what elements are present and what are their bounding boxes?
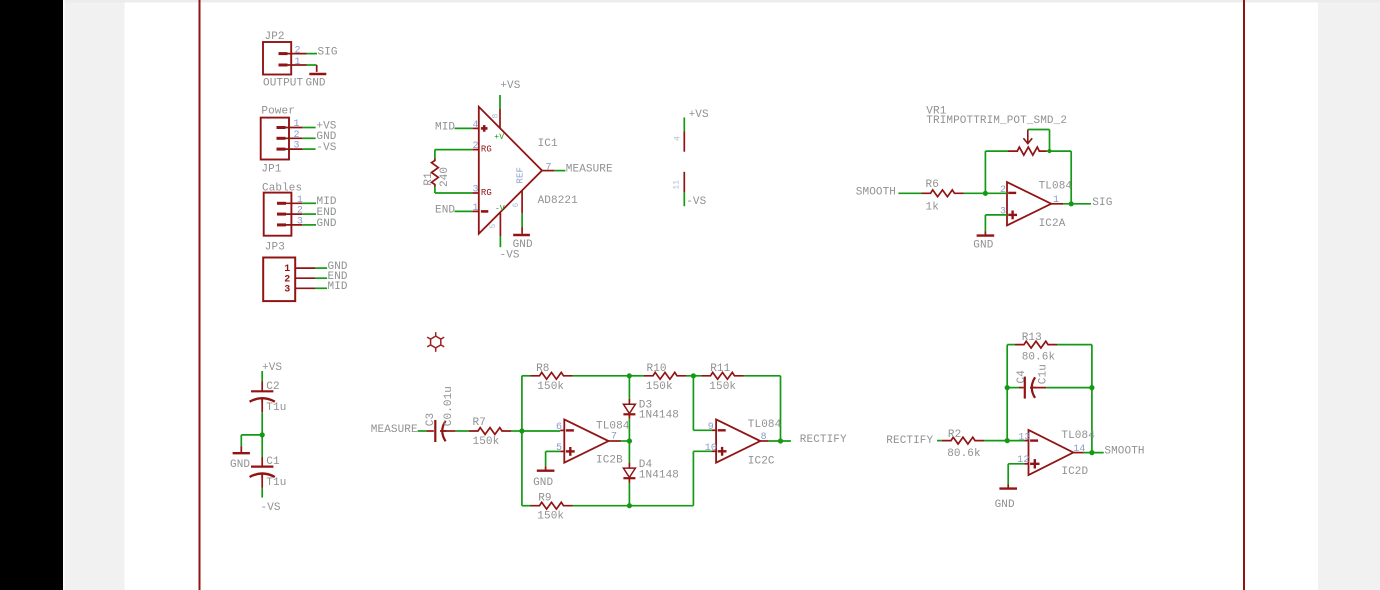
- IC1 pin 7 output: [542, 170, 554, 172]
- svg-text:2: 2: [1000, 185, 1006, 196]
- svg-text:GND: GND: [973, 240, 993, 252]
- op-amp IC1 AD8221 body: [479, 107, 542, 234]
- junction C4 left: [1005, 385, 1010, 390]
- svg-text:+VS: +VS: [689, 109, 709, 121]
- wire +VS: [303, 127, 316, 129]
- op-amp IC2A body: [1007, 182, 1051, 225]
- JP2 pin 2: [288, 53, 307, 55]
- svg-text:240: 240: [439, 167, 451, 187]
- diode D3: [628, 376, 630, 399]
- wire bottom row R9 left: [522, 505, 531, 507]
- svg-text:10: 10: [705, 443, 717, 454]
- svg-text:C1u: C1u: [1038, 364, 1050, 384]
- svg-text:-VS: -VS: [686, 196, 706, 208]
- IC1 pin 5 -VS: [499, 213, 501, 236]
- wire END: [302, 213, 316, 215]
- svg-text:TL084: TL084: [1061, 430, 1095, 442]
- wire GND: [303, 137, 316, 139]
- svg-text:Power: Power: [261, 106, 295, 118]
- IC1 pin 6 REF: [521, 191, 523, 213]
- junction IC2A output: [1069, 201, 1074, 206]
- svg-text:GND: GND: [533, 477, 553, 489]
- svg-text:3: 3: [284, 284, 290, 295]
- wire +VS: [683, 118, 685, 132]
- junction IC2B output D3 D4: [627, 438, 632, 443]
- IC2D pin 12 +IN: [1008, 463, 1024, 465]
- wire D4 to bottom row: [628, 483, 630, 506]
- wire MEASURE: [554, 170, 565, 172]
- svg-text:1: 1: [294, 119, 300, 130]
- wire R7 to node: [511, 430, 522, 432]
- svg-text:2: 2: [295, 46, 301, 57]
- wire output to SMOOTH: [1083, 452, 1103, 454]
- IC2D pin 13 -IN: [1007, 440, 1024, 442]
- capacitor C1: [261, 457, 263, 466]
- svg-text:150k: 150k: [537, 381, 564, 393]
- svg-text:GND: GND: [230, 459, 250, 471]
- wire SMOOTH to R6: [898, 192, 921, 194]
- junction C4 right: [1089, 385, 1094, 390]
- wire junction to C1: [261, 435, 263, 458]
- op-amp IC2B body: [564, 419, 608, 462]
- svg-text:-VS: -VS: [261, 502, 281, 514]
- svg-text:R11: R11: [710, 363, 730, 375]
- resistor R1: [432, 159, 439, 187]
- svg-text:2: 2: [294, 130, 300, 141]
- ground at C1-C2: [240, 446, 242, 452]
- wire pin6 to ground: [521, 213, 523, 227]
- wire -VS: [303, 148, 316, 150]
- left gray band: [65, 0, 125, 590]
- junction IC2C output feedback: [778, 438, 783, 443]
- svg-text:-VS: -VS: [316, 142, 336, 154]
- svg-text:C3: C3: [425, 413, 437, 426]
- svg-text:TRIMPOTTRIM_POT_SMD_2: TRIMPOTTRIM_POT_SMD_2: [926, 115, 1067, 127]
- svg-text:Cables: Cables: [262, 183, 302, 195]
- wire pin12 to ground: [1007, 464, 1009, 484]
- junction IC2D output feedback: [1089, 450, 1094, 455]
- wire -VS: [683, 192, 685, 206]
- sheet frame right border: [1243, 0, 1245, 590]
- wire C2 to junction: [261, 412, 263, 435]
- wire IC2A feedback left vertical: [984, 151, 986, 193]
- svg-text:7: 7: [611, 432, 617, 443]
- wire R13 left corner: [1007, 344, 1015, 346]
- IC2C pin 9 -IN: [693, 429, 712, 431]
- top gray strip: [65, 0, 1380, 3]
- junction D4-bottom row: [627, 503, 632, 508]
- svg-text:5: 5: [556, 443, 562, 454]
- diode D4: [628, 441, 630, 463]
- svg-text:4: 4: [473, 120, 479, 131]
- right gray band: [1318, 0, 1380, 590]
- IC2C pin 10 +IN: [693, 450, 712, 452]
- svg-text:R10: R10: [647, 363, 667, 375]
- svg-text:7: 7: [546, 163, 552, 174]
- svg-text:SIG: SIG: [318, 47, 338, 59]
- wire MEASURE to C3: [418, 430, 427, 432]
- svg-text:C0.01u: C0.01u: [443, 386, 455, 426]
- wire feedback top right: [1047, 150, 1071, 152]
- svg-text:80.6k: 80.6k: [947, 448, 981, 460]
- svg-text:150k: 150k: [473, 436, 500, 448]
- svg-text:IC2C: IC2C: [748, 456, 775, 468]
- junction R6-feedback-pin2: [983, 191, 988, 196]
- junction R7-R8-R9-pin6: [519, 428, 524, 433]
- svg-text:GND: GND: [995, 499, 1015, 511]
- svg-text:IC2A: IC2A: [1039, 218, 1066, 230]
- junction R8-R10-D3: [627, 373, 632, 378]
- resistor R9: [531, 502, 573, 509]
- IC2B pin 7 output: [608, 440, 621, 442]
- wire R8 left: [522, 375, 531, 377]
- svg-text:9: 9: [708, 422, 714, 433]
- JP3 pin 2: [286, 213, 302, 215]
- wire output node: [621, 440, 629, 442]
- IC2A pin 3 +IN: [985, 214, 1007, 216]
- svg-text:5: 5: [489, 224, 498, 229]
- resistor R8: [531, 372, 573, 379]
- wire pin9 vertical: [692, 376, 694, 431]
- svg-text:3: 3: [294, 141, 300, 152]
- JP3 pin 1: [286, 202, 302, 204]
- svg-text:+VS: +VS: [262, 362, 282, 374]
- svg-text:SMOOTH: SMOOTH: [856, 186, 896, 198]
- svg-text:11: 11: [673, 180, 682, 190]
- svg-text:MID: MID: [435, 121, 455, 133]
- IC2A pin 1 output: [1051, 203, 1063, 205]
- wire -VS: [499, 236, 501, 247]
- ground at IC2D: [1007, 484, 1009, 489]
- connector JP4: [263, 258, 295, 302]
- svg-text:3: 3: [473, 185, 479, 196]
- wire GND: [315, 267, 327, 269]
- wire R11 left: [693, 375, 701, 377]
- svg-text:IC1: IC1: [538, 138, 558, 150]
- svg-text:+V: +V: [494, 133, 504, 142]
- wire feedback right vertical: [1070, 151, 1072, 204]
- svg-text:MEASURE: MEASURE: [371, 424, 418, 436]
- capacitor C2: [261, 382, 263, 391]
- wire RECTIFY to R2: [937, 440, 942, 442]
- connector JP2: [263, 42, 291, 75]
- wire R2 to node: [984, 440, 1007, 442]
- svg-text:R1: R1: [423, 172, 435, 186]
- svg-text:RECTIFY: RECTIFY: [886, 435, 933, 447]
- trimpot VR1 element: [1008, 147, 1047, 155]
- svg-text:IC2D: IC2D: [1061, 466, 1088, 478]
- svg-text:GND: GND: [317, 218, 337, 230]
- svg-text:END: END: [435, 204, 455, 216]
- svg-text:GND: GND: [513, 239, 533, 251]
- svg-text:3: 3: [297, 216, 303, 227]
- wire C4 right: [1046, 387, 1092, 389]
- svg-text:2: 2: [297, 206, 303, 217]
- svg-text:R9: R9: [538, 493, 551, 505]
- wire END: [315, 277, 327, 279]
- svg-text:1: 1: [297, 195, 303, 206]
- resistor R13: [1015, 341, 1057, 348]
- svg-text:R2: R2: [948, 429, 961, 441]
- svg-text:13: 13: [1018, 432, 1030, 443]
- wire bottom to pin10 vertical: [692, 451, 694, 505]
- svg-text:JP3: JP3: [265, 241, 285, 253]
- svg-text:150k: 150k: [646, 381, 673, 393]
- JP2 pin 1: [288, 64, 307, 66]
- IC2D pin 14 output: [1073, 452, 1084, 454]
- svg-text:C2: C2: [266, 381, 279, 393]
- svg-text:RG: RG: [481, 145, 492, 155]
- wire END: [455, 210, 473, 212]
- trimpot wiper arrow: [1027, 130, 1029, 144]
- wire pin5 to ground: [545, 451, 547, 466]
- svg-text:8: 8: [492, 114, 501, 119]
- svg-text:+VS: +VS: [500, 80, 520, 92]
- svg-text:-VS: -VS: [500, 250, 520, 262]
- svg-text:T1u: T1u: [266, 477, 286, 489]
- IC1 pin 4 +IN: [472, 127, 479, 129]
- wire left vertical R8-R9: [521, 376, 523, 506]
- wire MID: [315, 287, 327, 289]
- wire R6 to node: [964, 192, 986, 194]
- svg-text:-V: -V: [495, 205, 505, 214]
- svg-text:8: 8: [761, 432, 767, 443]
- JP3 pin 3: [286, 224, 302, 226]
- svg-text:1N4148: 1N4148: [639, 409, 679, 421]
- IC1 pin 8 +VS: [499, 109, 501, 129]
- wire GND: [302, 224, 316, 226]
- svg-text:3: 3: [1000, 207, 1006, 218]
- wire bottom row R9 right: [572, 505, 693, 507]
- wire R11 to corner: [744, 375, 781, 377]
- wire output to RECTIFY: [769, 440, 791, 442]
- JP4 pin 2: [295, 277, 315, 279]
- wire MID: [302, 202, 316, 204]
- wire SIG: [307, 53, 318, 55]
- svg-text:1: 1: [473, 203, 479, 214]
- resistor R6: [922, 190, 964, 197]
- wire wiper: [1028, 129, 1050, 131]
- svg-text:2: 2: [473, 141, 479, 152]
- wire C3 to R7: [456, 430, 469, 432]
- svg-text:MID: MID: [328, 281, 348, 293]
- svg-text:MEASURE: MEASURE: [566, 164, 613, 176]
- JP1 pin 1: [286, 127, 303, 129]
- junction C1-C2-GND: [260, 432, 265, 437]
- svg-text:JP2: JP2: [265, 31, 285, 43]
- IC1 pin 3 RG: [472, 192, 479, 194]
- svg-text:R6: R6: [926, 179, 939, 191]
- svg-text:C1: C1: [266, 456, 280, 468]
- wire R1 to pin3: [434, 187, 436, 194]
- svg-text:RG: RG: [481, 188, 492, 198]
- resistor R7: [469, 428, 511, 435]
- capacitor C4: [1007, 387, 1019, 389]
- resistor R2: [942, 437, 984, 444]
- sun marker symbol: [431, 336, 441, 348]
- svg-text:150k: 150k: [537, 511, 564, 523]
- capacitor C3: [426, 430, 433, 432]
- op-amp IC2D body: [1029, 430, 1074, 475]
- resistor R11: [702, 372, 744, 379]
- junction R2-pin13-C4: [1005, 438, 1010, 443]
- op-amp IC2C body: [716, 419, 760, 462]
- svg-text:IC2B: IC2B: [596, 455, 623, 467]
- svg-text:12: 12: [1017, 455, 1029, 466]
- wire node to R10: [629, 375, 644, 377]
- ground at IC2B: [545, 466, 547, 471]
- svg-text:AD8221: AD8221: [538, 195, 579, 207]
- IC2A pin 2 -IN: [985, 192, 1007, 194]
- junction R10-R11-pin9: [691, 373, 696, 378]
- wire JP2 pin1 to ground: [307, 64, 317, 66]
- IC2 pin 4 V+: [683, 132, 685, 152]
- JP1 pin 3: [286, 148, 303, 150]
- IC2B pin 5 +IN: [546, 450, 561, 452]
- JP4 pin 3: [295, 287, 315, 289]
- svg-text:1N4148: 1N4148: [639, 470, 679, 482]
- svg-text:REF: REF: [516, 167, 526, 184]
- resistor R10: [644, 372, 686, 379]
- svg-text:SIG: SIG: [1092, 197, 1112, 209]
- wire C1 to -VS: [261, 488, 263, 498]
- svg-text:6: 6: [512, 203, 521, 208]
- junction wiper-right end: [1047, 149, 1051, 153]
- svg-text:TL084: TL084: [748, 419, 782, 431]
- IC1 pin 1 -IN: [472, 210, 479, 212]
- svg-text:C4: C4: [1016, 370, 1028, 384]
- svg-text:1: 1: [1053, 195, 1059, 206]
- JP1 pin 2: [286, 137, 303, 139]
- svg-text:1: 1: [295, 57, 301, 68]
- IC2B pin 6 -IN: [522, 430, 560, 432]
- svg-text:R7: R7: [473, 417, 486, 429]
- wire R8 to node: [573, 375, 630, 377]
- wire pin3 to ground: [984, 215, 986, 231]
- svg-text:SMOOTH: SMOOTH: [1104, 446, 1144, 458]
- wire output to SIG: [1063, 203, 1091, 205]
- svg-text:RECTIFY: RECTIFY: [800, 434, 847, 446]
- black sidebar: [0, 0, 63, 590]
- svg-text:R8: R8: [536, 363, 549, 375]
- wire feedback top left: [985, 150, 1008, 152]
- svg-text:6: 6: [556, 422, 562, 433]
- wire D3 to output node: [628, 419, 630, 441]
- wire R13 right: [1057, 344, 1092, 346]
- IC2C pin 8 output: [760, 440, 769, 442]
- svg-text:OUTPUT: OUTPUT: [263, 78, 304, 90]
- wire feedback right vertical IC2C: [780, 376, 782, 441]
- IC2 pin 11 V-: [683, 172, 685, 192]
- svg-text:80.6k: 80.6k: [1022, 352, 1056, 364]
- svg-text:4: 4: [674, 136, 683, 141]
- connector JP3 Cables: [264, 193, 292, 236]
- wire +VS to C2: [261, 371, 263, 382]
- wire junction to ground: [241, 434, 262, 436]
- wire R10 to node: [686, 375, 693, 377]
- ground at IC2A: [984, 231, 986, 236]
- connector JP1 Power: [261, 118, 289, 160]
- ground at IC1 REF: [521, 227, 523, 234]
- svg-text:GND: GND: [306, 78, 326, 90]
- wire feedback right vertical: [1091, 345, 1093, 453]
- wire pin2 to R1: [435, 149, 472, 151]
- wire +VS: [499, 95, 501, 109]
- svg-text:JP1: JP1: [261, 164, 281, 176]
- svg-text:R13: R13: [1022, 332, 1042, 344]
- svg-text:T1u: T1u: [266, 402, 286, 414]
- svg-text:1k: 1k: [926, 202, 940, 214]
- ground at JP2: [316, 65, 318, 72]
- JP4 pin 1: [295, 267, 315, 269]
- svg-text:150k: 150k: [709, 381, 736, 393]
- svg-text:TL084: TL084: [1039, 181, 1073, 193]
- sheet frame left border: [199, 0, 201, 590]
- IC1 pin 2 RG: [472, 149, 479, 151]
- wire MID: [455, 127, 473, 129]
- wire feedback left vertical: [1006, 345, 1008, 441]
